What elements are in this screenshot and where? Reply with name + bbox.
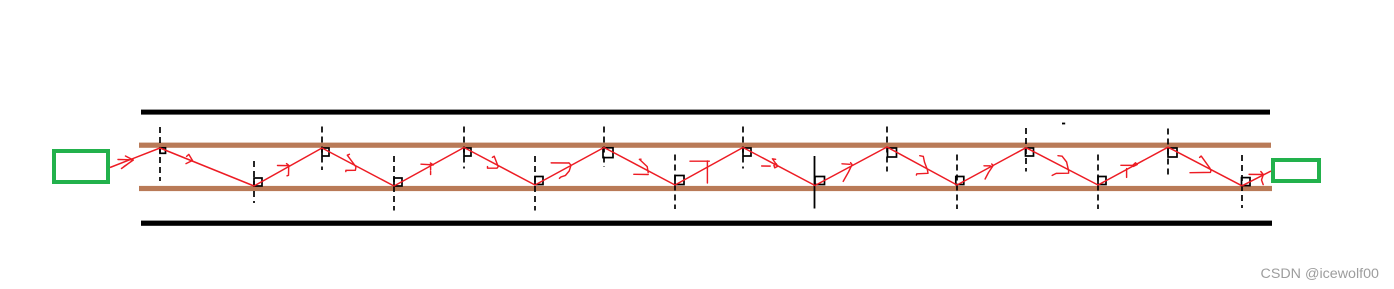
- svg-text:CSDN @icewolf00: CSDN @icewolf00: [1261, 266, 1380, 281]
